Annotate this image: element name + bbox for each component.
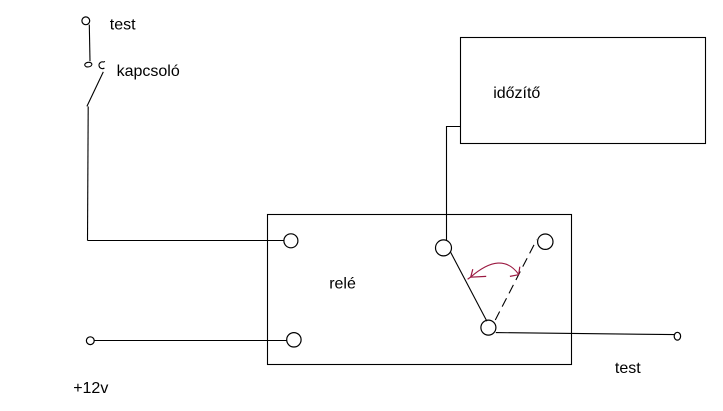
terminal circle (test, top) [82, 17, 90, 25]
red swing arrow (arc) [470, 263, 518, 277]
svg-text:test: test [615, 360, 641, 377]
svg-text:kapcsoló: kapcsoló [117, 63, 180, 80]
relay coil terminal top-left [284, 234, 298, 248]
wire (top terminal to switch) [88, 25, 91, 62]
wire (to relay coil top) [88, 240, 285, 242]
svg-text:időzítő: időzítő [493, 85, 540, 102]
relay common terminal [436, 240, 452, 256]
relay contact alternate position (dashed) [495, 240, 536, 320]
relay coil terminal bottom-left [287, 333, 301, 347]
terminal circle (test, right) [674, 332, 680, 340]
wire (+12v to relay coil bottom) [94, 340, 287, 342]
terminal circle (+12v) [86, 337, 94, 345]
wire (relay switch to test right) [496, 333, 674, 335]
timer box [461, 38, 706, 144]
relay switched terminal (bottom) [481, 320, 496, 335]
red arrowhead left [468, 269, 487, 279]
relay moving contact (solid position) [451, 252, 487, 321]
svg-text:relé: relé [329, 275, 356, 292]
relay box [268, 215, 572, 365]
relay NO terminal top-right [538, 234, 553, 249]
switch contact (open circle) [99, 62, 105, 69]
wire (timer to relay common) [447, 127, 461, 241]
svg-text:test: test [110, 16, 136, 33]
switch pole terminal (ellipse) [84, 62, 92, 68]
red arrowhead right [510, 267, 520, 277]
wire (switch down) [87, 107, 90, 241]
svg-text:+12v: +12v [73, 380, 108, 397]
switch lever [87, 72, 103, 107]
